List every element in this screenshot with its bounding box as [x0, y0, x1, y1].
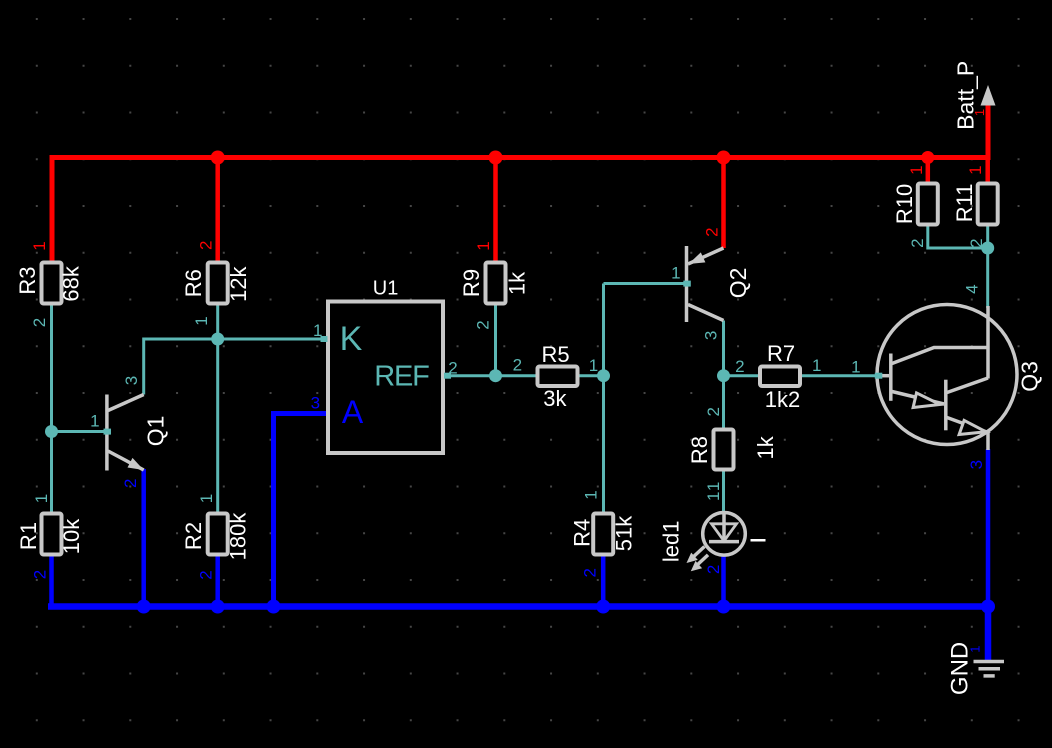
svg-text:1k2: 1k2 [765, 387, 800, 412]
svg-text:R9: R9 [459, 269, 484, 297]
wire : teal R3-R1 column [50, 304, 53, 515]
node junction red R10/rail [921, 151, 934, 164]
svg-text:3: 3 [311, 394, 320, 413]
wire : red drop to R6 [215, 158, 220, 263]
svg-text:R7: R7 [767, 341, 795, 366]
resistor R3 [42, 263, 62, 304]
svg-text:REF: REF [374, 361, 429, 393]
svg-text:1: 1 [197, 494, 216, 503]
node junction blue GND [981, 600, 995, 614]
node junction red R9/rail [489, 151, 503, 165]
svg-text:1: 1 [474, 241, 493, 250]
svg-text:51k: 51k [612, 515, 637, 551]
wire : blue R4 to rail [601, 554, 606, 607]
wire : teal Q2 base net vertical [602, 284, 605, 515]
svg-text:68k: 68k [59, 265, 84, 301]
svg-text:2: 2 [967, 238, 986, 247]
diode led1 anode line [722, 514, 726, 542]
transistor Q3 T2 emitter diagonal [947, 418, 988, 433]
svg-text:R3: R3 [15, 267, 40, 295]
resistor R2 [208, 514, 228, 555]
svg-text:180k: 180k [226, 512, 251, 561]
svg-text:3: 3 [702, 331, 721, 340]
label led1 value dash [751, 539, 766, 542]
wire : teal Q1 base [52, 430, 109, 433]
svg-text:R5: R5 [542, 342, 570, 367]
resistor R1 [42, 514, 62, 555]
svg-text:1: 1 [589, 356, 598, 375]
wire : blue led1 to rail [721, 554, 726, 607]
power Batt_P arrow [981, 85, 996, 106]
svg-text:1: 1 [967, 646, 982, 653]
ground GND symbol bar2 [979, 667, 1001, 671]
wire : blue U1 pin A to rail [274, 414, 329, 607]
svg-text:1: 1 [30, 241, 49, 250]
wire : blue Q1 emitter to rail [141, 469, 146, 607]
diode led1 circle [703, 513, 746, 556]
svg-text:Q2: Q2 [725, 268, 751, 299]
svg-text:3k: 3k [543, 386, 567, 411]
node Q2 base pin nub [683, 281, 691, 287]
wire : red drop to R9 [493, 158, 498, 263]
ground GND symbol bar1 [974, 660, 1005, 664]
svg-text:1: 1 [704, 482, 723, 491]
node junction blue A-net [267, 600, 281, 614]
node junction red R6/rail [211, 151, 225, 165]
wire : blue Q3 emitter to rail [986, 449, 991, 607]
node junction teal REF/R9 [489, 369, 502, 382]
op-amp U1 TL431 body [328, 302, 443, 454]
diode led1 triangle [712, 524, 737, 541]
node U1 pin K nub [321, 336, 328, 342]
ground GND symbol bar3 [984, 674, 995, 678]
transistor Q2 collector diagonal [688, 305, 724, 321]
svg-text:U1: U1 [373, 278, 399, 300]
transistor Q1 base bar [105, 395, 109, 471]
svg-text:1: 1 [90, 412, 99, 431]
resistor R9 [486, 263, 506, 304]
wire : teal Q2 base horizontal [604, 282, 689, 285]
svg-text:2: 2 [121, 479, 140, 488]
svg-text:1k: 1k [753, 435, 778, 459]
svg-text:R1: R1 [16, 522, 41, 550]
svg-text:1: 1 [671, 264, 680, 283]
svg-text:4: 4 [963, 284, 982, 293]
wire : teal junction to R7 [724, 374, 761, 377]
resistor R5 [538, 367, 578, 387]
node junction teal R5/R4 [597, 369, 610, 382]
svg-text:R2: R2 [181, 522, 206, 550]
svg-text:12k: 12k [226, 265, 251, 301]
svg-text:R6: R6 [181, 269, 206, 297]
transistor Q3 T1 collector path [892, 348, 988, 364]
transistor Q3 T1 emitter diagonal [892, 392, 944, 405]
wire : GND blue rail bottom [48, 607, 988, 662]
wire : teal R8 to led1 [722, 469, 725, 514]
wire : red drop to R11 [985, 158, 990, 185]
svg-text:led1: led1 [658, 521, 683, 563]
wire : VCC red rail top [52, 104, 988, 262]
node junction blue R2 [211, 600, 225, 614]
svg-text:2: 2 [703, 227, 722, 236]
transistor Q2 emitter arrow [689, 252, 706, 264]
resistor R7 [760, 367, 800, 387]
svg-text:2: 2 [735, 357, 744, 376]
wire : teal Q1 collector to U1 K [144, 339, 328, 395]
wire : teal R7 to Q3 base [800, 374, 879, 377]
svg-text:2: 2 [474, 320, 493, 329]
svg-text:1: 1 [582, 490, 601, 499]
svg-text:1: 1 [812, 356, 821, 375]
transistor Q1 emitter arrow [128, 458, 144, 470]
node Q1 base pin nub [104, 429, 112, 435]
svg-text:K: K [340, 320, 363, 358]
node junction blue R4 [596, 600, 610, 614]
svg-text:2: 2 [197, 241, 216, 250]
svg-text:10k: 10k [59, 518, 84, 554]
transistor Q2 emitter diagonal [688, 248, 724, 264]
svg-text:1: 1 [313, 321, 322, 340]
diode led1 light arrow 2 [696, 555, 709, 567]
transistor Q3 collector vertical [986, 306, 990, 379]
svg-text:Q1: Q1 [143, 416, 169, 447]
svg-text:Batt_P: Batt_P [952, 61, 978, 130]
node U1 pin REF nub [444, 373, 451, 379]
svg-text:1: 1 [192, 316, 211, 325]
transistor Q3 T2 base bar [944, 380, 948, 431]
transistor Q3 T1 emitter open arrow [913, 393, 940, 408]
node junction red Q2/rail [717, 151, 731, 165]
svg-text:A: A [342, 394, 364, 430]
resistor R8 [714, 430, 734, 470]
transistor Q3 T2 emitter open arrow [959, 420, 986, 434]
svg-text:R4: R4 [570, 519, 595, 547]
resistor R11 [978, 184, 998, 225]
resistor R6 [208, 263, 228, 304]
transistor Q3 circle [877, 305, 1017, 445]
svg-text:R10: R10 [892, 184, 917, 224]
svg-text:2: 2 [704, 565, 723, 574]
transistor Q3 T2 collector diagonal [947, 378, 988, 393]
wire : red drop to R10 [926, 158, 931, 185]
node junction teal R6/K-net [211, 333, 224, 346]
svg-text:1k: 1k [504, 271, 529, 295]
svg-text:2: 2 [31, 570, 50, 579]
transistor Q3 T1 base bar [889, 354, 893, 401]
svg-text:R8: R8 [687, 436, 712, 464]
svg-text:1: 1 [851, 358, 860, 377]
node Q3 base pin nub [875, 373, 883, 379]
node junction teal R3/R1/Q1 [45, 425, 58, 438]
svg-text:R11: R11 [952, 184, 977, 223]
wire : teal Q2 collector to R8 [722, 321, 725, 431]
transistor Q1 collector diagonal [108, 395, 144, 411]
svg-text:2: 2 [448, 359, 457, 378]
svg-text:2: 2 [513, 356, 522, 375]
transistor Q3 base lead [877, 374, 889, 378]
wire : teal R5 to junction [577, 374, 604, 377]
svg-text:2: 2 [581, 568, 600, 577]
transistor Q2 base bar [685, 246, 689, 322]
svg-text:3: 3 [122, 376, 141, 385]
svg-text:1: 1 [907, 165, 926, 174]
svg-text:2: 2 [30, 318, 49, 327]
resistor R10 [918, 184, 938, 225]
node junction blue Q1 [137, 600, 151, 614]
wire : blue R2 to rail [215, 553, 220, 607]
node junction teal R10/R11/Q3 [981, 242, 994, 255]
svg-text:1: 1 [966, 165, 985, 174]
wire : blue R1 to rail [49, 553, 54, 607]
diode led1 light arrow 1 [692, 547, 705, 559]
svg-text:1: 1 [972, 109, 987, 116]
transistor Q3 emitter exit lead [986, 430, 990, 450]
svg-text:1: 1 [32, 494, 51, 503]
node junction blue led1 [717, 600, 731, 614]
node junction teal Q2/R7/R8 [717, 369, 730, 382]
wire : teal R10 elbow [928, 224, 988, 249]
wire : teal R11 bottom to Q3 pin4 [986, 224, 989, 309]
svg-text:3: 3 [967, 460, 986, 469]
svg-text:2: 2 [197, 570, 216, 579]
wire : teal U1 REF to R5 [443, 374, 538, 377]
wire : red drop to Q2 emitter [721, 158, 726, 249]
wire : teal R9 bottom [494, 304, 497, 376]
diode led1 cathode bar [709, 540, 739, 544]
resistor R4 [593, 514, 613, 555]
wire : teal R6-R2 column [216, 304, 219, 515]
svg-text:1: 1 [704, 492, 723, 501]
transistor Q1 emitter diagonal [108, 451, 144, 470]
svg-text:2: 2 [704, 407, 723, 416]
svg-text:Q3: Q3 [1016, 361, 1042, 392]
svg-text:2: 2 [908, 238, 927, 247]
